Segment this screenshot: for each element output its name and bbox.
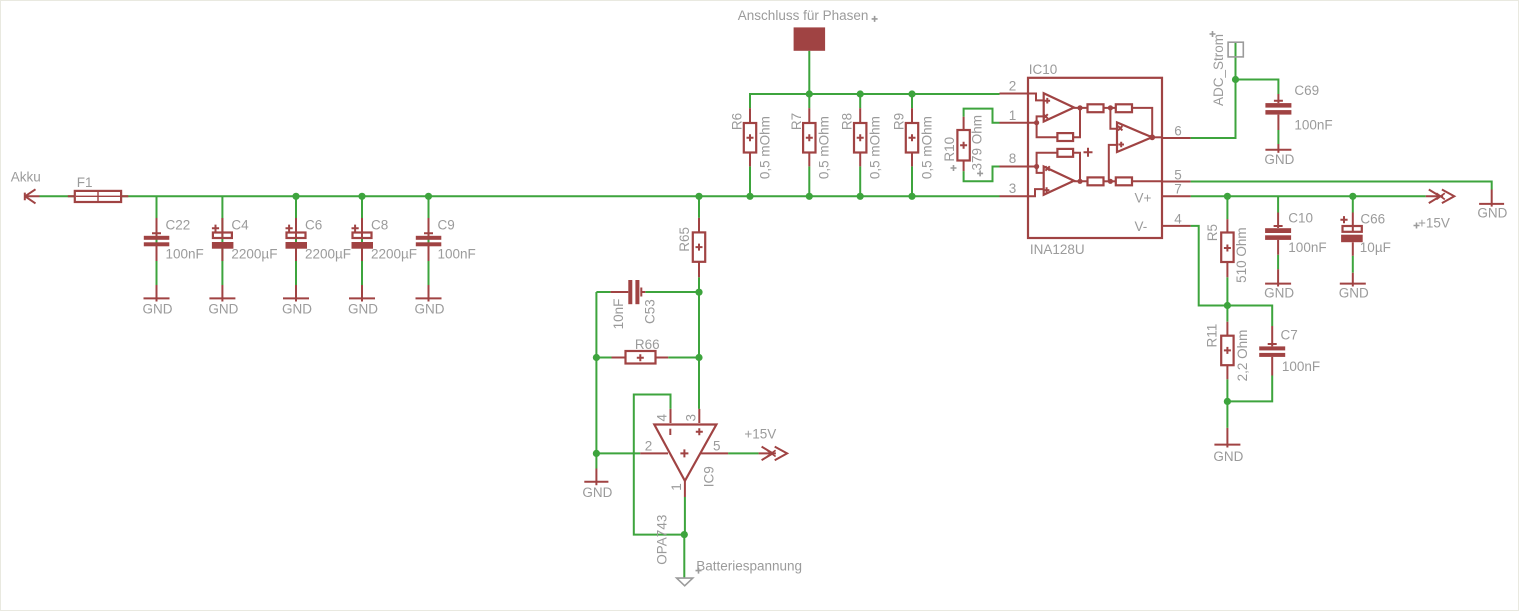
ground GND IC9 — [584, 469, 608, 486]
svg-text:R6: R6 — [730, 113, 745, 130]
resistor R65 — [693, 218, 705, 277]
capacitor C4 — [212, 218, 234, 261]
capacitor C22 — [144, 218, 170, 261]
wire left column C53-R66-GND — [595, 292, 597, 469]
ground GND C10 — [1265, 269, 1291, 286]
wire ADC pad drop — [1235, 43, 1237, 80]
wire pin5 to right GND — [1191, 182, 1492, 190]
feedback resistor A2 — [1037, 149, 1088, 181]
wire R11 column — [1226, 306, 1228, 428]
svg-text:10µF: 10µF — [1360, 240, 1391, 255]
net arrow Batteriespannung — [677, 578, 693, 586]
svg-text:2,2 Ohm: 2,2 Ohm — [1235, 330, 1250, 382]
IC10 pin 5 — [1162, 181, 1191, 183]
svg-text:100nF: 100nF — [1288, 240, 1326, 255]
wire C10 branch — [1277, 196, 1279, 269]
svg-text:10nF: 10nF — [611, 299, 626, 330]
svg-text:GND: GND — [1264, 286, 1294, 301]
wire C7 branch — [1227, 306, 1272, 402]
svg-text:5: 5 — [713, 438, 721, 453]
svg-text:IC9: IC9 — [701, 466, 716, 487]
svg-text:GND: GND — [143, 301, 173, 316]
wire C66 branch — [1352, 196, 1354, 272]
svg-text:0,5 mOhm: 0,5 mOhm — [919, 116, 934, 179]
origin cross Anschluss — [872, 16, 878, 22]
svg-text:C8: C8 — [371, 218, 388, 233]
svg-text:C10: C10 — [1288, 210, 1313, 225]
ground GND right — [1479, 190, 1504, 207]
svg-text:510 Ohm: 510 Ohm — [1234, 227, 1249, 283]
wire top phase line — [750, 94, 1000, 108]
ground GND C8 — [349, 285, 375, 302]
wire R10 to pin1 — [964, 109, 1000, 123]
wire R5 column — [1226, 196, 1228, 305]
svg-text:C53: C53 — [643, 299, 658, 324]
resistor R6 — [744, 108, 756, 166]
svg-text:Akku: Akku — [11, 169, 41, 184]
origin cross 379 Ohm — [977, 170, 983, 176]
svg-text:R66: R66 — [635, 337, 660, 352]
svg-text:GND: GND — [1339, 286, 1369, 301]
ground GND C6 — [283, 285, 309, 302]
wire pin7 +15V rail — [1191, 195, 1426, 197]
IC10 pin 1 — [1000, 122, 1029, 124]
svg-text:R5: R5 — [1205, 224, 1220, 241]
IC10 output node to pin6 — [1152, 136, 1162, 138]
feedback resistor A1 — [1037, 108, 1088, 141]
ground GND C69 — [1265, 144, 1291, 153]
svg-text:+15V: +15V — [1418, 215, 1450, 230]
svg-text:C6: C6 — [305, 218, 322, 233]
svg-text:2: 2 — [1009, 79, 1017, 94]
svg-text:GND: GND — [208, 301, 238, 316]
resistor R7 — [803, 108, 815, 166]
op-amp IC9 OPA743 — [640, 409, 728, 497]
wire IC9 pin5 out — [728, 452, 759, 454]
svg-text:R10: R10 — [942, 137, 957, 162]
svg-text:2200µF: 2200µF — [305, 247, 351, 262]
resistor R11 — [1221, 322, 1233, 380]
svg-text:Batteriespannung: Batteriespannung — [696, 559, 802, 574]
svg-text:Anschluss für Phasen: Anschluss für Phasen — [738, 8, 869, 23]
svg-text:ADC_Strom: ADC_Strom — [1211, 34, 1226, 106]
svg-text:V-: V- — [1135, 219, 1148, 234]
svg-text:8: 8 — [1009, 151, 1017, 166]
wire R65 column — [698, 196, 700, 409]
svg-text:IC10: IC10 — [1029, 62, 1058, 77]
svg-text:2200µF: 2200µF — [371, 247, 417, 262]
svg-text:0,5 mOhm: 0,5 mOhm — [757, 116, 772, 179]
svg-text:0,5 mOhm: 0,5 mOhm — [868, 116, 883, 179]
capacitor C53 — [611, 280, 646, 304]
wire IC9 pin2 row — [596, 452, 640, 454]
svg-text:R65: R65 — [677, 227, 692, 252]
svg-text:C9: C9 — [438, 218, 455, 233]
gain resistor chain top — [1088, 104, 1153, 137]
svg-text:R8: R8 — [840, 113, 855, 130]
svg-text:6: 6 — [1174, 124, 1182, 139]
svg-text:GND: GND — [1213, 449, 1243, 464]
wire pin6 to ADC node — [1191, 80, 1236, 139]
op-amp A3 output inside IC10 — [1109, 108, 1152, 181]
connector pad Anschluss — [794, 27, 826, 50]
svg-text:R7: R7 — [789, 113, 804, 130]
svg-text:4: 4 — [1174, 212, 1182, 227]
svg-text:GND: GND — [282, 301, 312, 316]
resistor R8 — [854, 108, 866, 166]
svg-text:3: 3 — [1009, 181, 1017, 196]
wire IC9 feedback loop — [634, 395, 685, 535]
svg-text:100nF: 100nF — [1282, 359, 1320, 374]
wire C69 branch — [1236, 80, 1279, 145]
capacitor C66 — [1340, 213, 1362, 256]
svg-text:C66: C66 — [1360, 211, 1385, 226]
wire R6 branch — [749, 166, 751, 196]
wire R8 branches — [859, 94, 861, 196]
ground GND C4 — [209, 285, 235, 302]
origin cross +15V — [1414, 223, 1420, 229]
svg-text:4: 4 — [655, 414, 670, 422]
wire C8 branch — [361, 196, 363, 285]
op-amp A2 inside IC10 — [1028, 166, 1074, 196]
ground GND C9 — [416, 285, 442, 302]
origin cross ADC_Strom — [1210, 31, 1216, 37]
resistor R10 — [957, 117, 969, 171]
svg-text:R9: R9 — [892, 113, 907, 130]
junction dots top line — [806, 90, 916, 97]
red junction dots IC10 — [1034, 105, 1155, 184]
svg-text:2200µF: 2200µF — [231, 247, 277, 262]
capacitor C9 — [416, 218, 442, 261]
wire C4 branch — [221, 196, 223, 285]
connector pad ADC_Strom — [1228, 42, 1243, 57]
junction dots main line — [292, 193, 915, 200]
svg-text:7: 7 — [1174, 181, 1182, 196]
IC IC10 body INA128U — [1028, 78, 1162, 238]
svg-text:1: 1 — [1009, 108, 1017, 123]
node Akku arrow — [25, 189, 40, 203]
supply arrow +15V IC9 out — [759, 447, 788, 461]
wire C53 row — [596, 291, 699, 293]
resistor R66 — [612, 351, 669, 364]
IC10 pin 8 — [1000, 166, 1029, 168]
ground GND C66 — [1340, 273, 1366, 287]
origin cross Batteriespannung — [696, 568, 702, 574]
wire R10 to pin8 — [964, 167, 1000, 182]
ground GND C22 — [144, 285, 170, 302]
svg-text:2: 2 — [645, 438, 653, 453]
IC10 pin 7 — [1162, 195, 1191, 197]
ground GND R11 — [1214, 428, 1240, 448]
svg-text:1: 1 — [669, 483, 684, 491]
capacitor C8 — [352, 218, 374, 261]
wire R7 branches — [808, 94, 810, 196]
svg-text:C7: C7 — [1281, 328, 1298, 343]
svg-text:C69: C69 — [1294, 83, 1319, 98]
wire pad drop — [808, 51, 810, 94]
svg-text:GND: GND — [348, 301, 378, 316]
IC10 pin 6 — [1162, 137, 1191, 139]
svg-text:C4: C4 — [231, 218, 249, 233]
resistor R9 — [906, 108, 918, 166]
plus symbol INA128 — [1084, 148, 1093, 157]
IC10 pin 3 — [1000, 195, 1029, 197]
gain resistor chain bottom — [1088, 177, 1163, 185]
wire C22 branch — [156, 196, 158, 285]
svg-text:100nF: 100nF — [438, 247, 476, 262]
svg-text:+15V: +15V — [744, 427, 776, 442]
supply arrow +15V right — [1426, 190, 1455, 204]
origin cross R10 — [951, 165, 957, 171]
svg-text:OPA743: OPA743 — [654, 515, 669, 565]
svg-text:R11: R11 — [1204, 324, 1219, 348]
junction dots right section — [1224, 76, 1357, 405]
wire main Akku bus — [40, 195, 1000, 197]
capacitor C69 — [1265, 94, 1291, 130]
svg-text:3: 3 — [683, 414, 698, 422]
svg-text:379 Ohm: 379 Ohm — [969, 115, 984, 171]
capacitor C7 — [1259, 326, 1285, 376]
wire pin4 route — [1191, 226, 1228, 306]
wire IC9 pin1 drop — [683, 497, 686, 578]
wire R9 branches — [911, 94, 913, 196]
wire C9 branch — [428, 196, 430, 285]
svg-text:5: 5 — [1174, 168, 1182, 183]
wire R66 row — [596, 357, 699, 359]
IC10 pin 2 — [1000, 93, 1029, 95]
wire C6 branch — [295, 196, 297, 285]
svg-text:INA128U: INA128U — [1030, 242, 1085, 257]
svg-text:GND: GND — [415, 301, 445, 316]
junction dots middle section — [593, 289, 703, 539]
svg-text:C22: C22 — [166, 218, 191, 233]
svg-text:0,5 mOhm: 0,5 mOhm — [817, 116, 832, 179]
capacitor C10 — [1265, 213, 1291, 255]
svg-text:GND: GND — [582, 485, 612, 500]
capacitor C6 — [286, 218, 308, 261]
svg-text:V+: V+ — [1135, 191, 1152, 206]
fuse F1 — [68, 191, 129, 202]
resistor R5 — [1221, 219, 1233, 277]
IC10 pin 4 — [1162, 225, 1191, 227]
svg-text:GND: GND — [1264, 152, 1294, 167]
svg-text:F1: F1 — [77, 175, 93, 190]
svg-text:100nF: 100nF — [166, 247, 204, 262]
svg-text:GND: GND — [1477, 206, 1507, 221]
op-amp A1 inside IC10 — [1028, 93, 1074, 123]
svg-text:100nF: 100nF — [1294, 117, 1332, 132]
